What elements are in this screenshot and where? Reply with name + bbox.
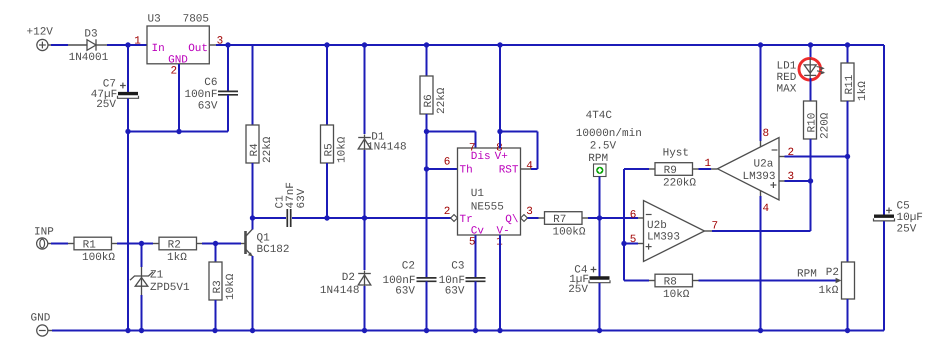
test point RPM	[576, 110, 642, 218]
resistor R6	[420, 45, 448, 169]
capacitor C5	[874, 45, 923, 331]
svg-text:4: 4	[763, 203, 770, 215]
svg-text:RST: RST	[499, 164, 519, 176]
svg-text:R6: R6	[423, 94, 435, 107]
svg-text:25V: 25V	[96, 99, 116, 111]
U2a pin 8	[763, 128, 770, 140]
resistor R7	[528, 212, 639, 239]
junction rail C6	[225, 42, 230, 47]
svg-text:1N4148: 1N4148	[367, 141, 407, 153]
svg-text:R11: R11	[844, 74, 856, 94]
U1 pin 6	[444, 157, 451, 169]
svg-text:LM393: LM393	[647, 232, 680, 244]
svg-text:1: 1	[134, 36, 141, 48]
junction V+/RST	[497, 129, 502, 134]
junction node INP/Z1	[139, 241, 144, 246]
junction subrail C7	[125, 129, 130, 134]
wire U2a pin4 to gnd	[760, 196, 762, 331]
svg-text:25V: 25V	[897, 224, 917, 236]
wire D3 to U3 In	[107, 44, 147, 46]
junction gnd R3	[212, 328, 217, 333]
svg-text:22kΩ: 22kΩ	[262, 136, 274, 163]
junction rail D1	[362, 42, 367, 47]
svg-text:220Ω: 220Ω	[819, 112, 831, 139]
svg-text:R3: R3	[212, 280, 224, 293]
U2a pin 4	[763, 203, 770, 215]
svg-text:63V: 63V	[198, 101, 218, 113]
junction rail R11	[845, 42, 850, 47]
junction rail LD1	[808, 42, 813, 47]
svg-text:4T4C: 4T4C	[586, 110, 613, 122]
svg-text:R8: R8	[664, 277, 677, 289]
svg-text:MAX: MAX	[777, 84, 797, 96]
junction minus ref	[845, 154, 850, 159]
svg-text:8: 8	[763, 128, 770, 140]
U1 pin 4	[526, 160, 533, 172]
svg-text:1N4001: 1N4001	[69, 52, 109, 64]
op-amp U2a LM393	[718, 138, 785, 201]
svg-text:6: 6	[630, 210, 637, 222]
svg-text:INP: INP	[34, 226, 54, 238]
svg-text:2: 2	[171, 66, 178, 78]
capacitor C2	[382, 169, 436, 331]
junction R6/Th	[424, 166, 429, 171]
svg-text:NE555: NE555	[471, 201, 504, 213]
capacitor C7	[91, 45, 139, 132]
U1 pin 5	[469, 236, 476, 248]
svg-text:1kΩ: 1kΩ	[167, 252, 187, 264]
svg-text:R5: R5	[323, 143, 335, 156]
svg-text:Tr: Tr	[460, 214, 473, 226]
U3 pin 2	[171, 66, 178, 78]
svg-text:4: 4	[526, 160, 533, 172]
diode D3	[68, 29, 109, 64]
svg-text:3: 3	[217, 36, 224, 48]
wire Cv pin down	[475, 235, 477, 248]
junction rail U2a pin8	[758, 42, 763, 47]
capacitor C6	[184, 45, 238, 132]
transistor Q1 BC182	[241, 218, 290, 331]
U1 pin 1	[496, 236, 503, 248]
junction rail R6	[424, 42, 429, 47]
wire gnd drop left	[127, 132, 129, 331]
svg-text:1kΩ: 1kΩ	[857, 81, 869, 101]
wire V+ pin up	[499, 45, 501, 148]
supply +12V	[27, 27, 54, 51]
svg-text:63V: 63V	[296, 188, 308, 208]
svg-text:Hyst: Hyst	[663, 147, 689, 159]
svg-text:10kΩ: 10kΩ	[663, 289, 690, 301]
capacitor C3	[439, 235, 486, 331]
svg-text:R7: R7	[553, 214, 566, 226]
U2b pin 5	[630, 234, 637, 246]
svg-text:+12V: +12V	[27, 27, 54, 39]
svg-text:Th: Th	[460, 164, 473, 176]
svg-text:2: 2	[444, 206, 451, 218]
wire U2a plus input	[785, 180, 811, 182]
svg-text:C3: C3	[451, 260, 464, 272]
svg-text:100kΩ: 100kΩ	[82, 252, 115, 264]
junction R4/C1/Q1	[250, 215, 255, 220]
junction gnd C7	[125, 328, 130, 333]
svg-text:C6: C6	[204, 77, 217, 89]
resistor R11	[841, 45, 869, 157]
resistor R3	[209, 244, 237, 331]
junction gnd Z1	[139, 328, 144, 333]
wire U2b out to U2a plus	[712, 181, 811, 231]
wire V- pin down	[499, 235, 501, 331]
svg-text:10000n/min: 10000n/min	[576, 128, 642, 140]
svg-text:Out: Out	[188, 43, 208, 55]
wire U2a pin8 to rail	[760, 45, 762, 141]
resistor R2	[142, 237, 242, 264]
diode D2	[320, 218, 371, 331]
wire hyst vertical	[624, 169, 649, 281]
svg-text:22kΩ: 22kΩ	[436, 87, 448, 114]
junction gnd 555 V-	[497, 328, 502, 333]
junction subrail U3 gnd	[176, 129, 181, 134]
wire trigger row	[327, 217, 451, 219]
svg-text:U2a: U2a	[754, 158, 774, 170]
svg-text:U1: U1	[471, 188, 485, 200]
svg-text:63V: 63V	[395, 286, 415, 298]
svg-text:GND: GND	[31, 313, 51, 325]
svg-text:BC182: BC182	[257, 244, 290, 256]
svg-text:U2b: U2b	[647, 220, 667, 232]
junction R7/TP/C4	[597, 215, 602, 220]
zener Z1 ZPD5V1	[130, 244, 190, 331]
junction R5 bottom	[324, 215, 329, 220]
svg-text:U3: U3	[148, 13, 161, 25]
svg-text:25V: 25V	[568, 284, 588, 296]
svg-text:P2: P2	[826, 267, 839, 279]
junction node R2/R3	[213, 241, 218, 246]
junction D1/trigger	[362, 215, 367, 220]
svg-text:100nF: 100nF	[184, 89, 217, 101]
svg-text:R10: R10	[806, 113, 818, 133]
svg-text:10µF: 10µF	[897, 212, 923, 224]
junction gnd C4	[597, 328, 602, 333]
junction plus/R10	[808, 178, 813, 183]
junction gnd C3	[473, 328, 478, 333]
junction gnd C2	[424, 328, 429, 333]
U2a pin 2	[788, 147, 795, 159]
svg-text:Q1: Q1	[257, 232, 271, 244]
wire RST loop	[500, 132, 538, 170]
resistor R9	[649, 147, 718, 189]
svg-text:2.5V: 2.5V	[590, 141, 617, 153]
svg-text:R2: R2	[168, 240, 181, 252]
resistor R4	[246, 45, 274, 218]
resistor R5	[321, 45, 349, 218]
U1 pin 2	[444, 206, 451, 218]
regulator U3 7805	[147, 13, 209, 66]
U1 pin 3	[526, 206, 533, 218]
svg-text:LM393: LM393	[743, 171, 776, 183]
resistor R10	[804, 101, 832, 181]
svg-text:1: 1	[705, 158, 712, 170]
svg-text:63V: 63V	[445, 286, 465, 298]
wire R11 to P2	[847, 157, 849, 263]
connector INP	[34, 226, 54, 249]
U1 pin 8	[496, 142, 503, 154]
U1 pin 7	[469, 142, 476, 154]
svg-text:10kΩ: 10kΩ	[336, 136, 348, 163]
junction gnd Q1 emitter	[250, 328, 255, 333]
diode D1	[358, 45, 406, 218]
svg-text:7805: 7805	[183, 13, 209, 25]
potentiometer P2	[797, 262, 855, 331]
U1 Q pin diamond	[521, 215, 528, 222]
junction gnd U2a pin4	[758, 328, 763, 333]
U2b pin 7	[712, 221, 719, 233]
junction +12V node	[125, 42, 130, 47]
wire Dis connect	[427, 132, 476, 149]
wire Th connect	[427, 168, 458, 170]
U2a pin 3	[788, 171, 795, 183]
U3 pin 1	[134, 36, 141, 48]
svg-text:3: 3	[526, 206, 533, 218]
svg-text:In: In	[152, 43, 165, 55]
wire +5V rail	[209, 44, 884, 46]
connector GND	[31, 313, 53, 337]
junction plus input	[621, 241, 626, 246]
resistor R8	[649, 274, 836, 301]
junction rail R5	[324, 42, 329, 47]
svg-text:100kΩ: 100kΩ	[553, 227, 586, 239]
U3 pin 3	[217, 36, 224, 48]
svg-text:1kΩ: 1kΩ	[819, 285, 839, 297]
op-amp U2b LM393	[638, 201, 712, 262]
wire U2a minus input	[785, 156, 848, 158]
wire plus input	[624, 243, 638, 245]
svg-text:ZPD5V1: ZPD5V1	[150, 282, 190, 294]
LED LD1	[777, 45, 826, 101]
svg-text:R4: R4	[249, 143, 261, 157]
svg-text:R1: R1	[83, 240, 97, 252]
svg-text:C2: C2	[402, 260, 415, 272]
timer U1 NE555	[458, 148, 521, 237]
svg-text:Z1: Z1	[150, 269, 164, 281]
svg-text:10kΩ: 10kΩ	[225, 273, 237, 300]
R9 pin 1	[705, 158, 712, 170]
wire gnd rail	[52, 330, 884, 332]
junction gnd P2	[845, 328, 850, 333]
junction rail 555 V+	[497, 42, 502, 47]
U2b pin 6	[630, 210, 637, 222]
svg-text:RPM: RPM	[588, 153, 608, 165]
U1 Tr pin diamond	[451, 215, 458, 222]
svg-text:6: 6	[444, 157, 451, 169]
svg-text:220kΩ: 220kΩ	[663, 178, 696, 190]
capacitor C4	[568, 218, 610, 331]
junction R6/Dis	[424, 129, 429, 134]
svg-text:Q\: Q\	[505, 214, 518, 226]
svg-text:D2: D2	[342, 272, 355, 284]
wire gnd subrail	[128, 131, 228, 133]
svg-text:R9: R9	[664, 165, 677, 177]
resistor R1	[51, 237, 142, 264]
svg-text:RPM: RPM	[797, 269, 817, 281]
junction gnd D2	[362, 328, 367, 333]
wire +12V to D3	[51, 44, 68, 46]
capacitor C1	[253, 182, 328, 227]
svg-text:D3: D3	[84, 29, 97, 41]
svg-text:RED: RED	[777, 72, 797, 84]
wire U3 GND pin down	[178, 64, 180, 132]
svg-text:7: 7	[469, 142, 476, 154]
svg-text:LD1: LD1	[777, 60, 797, 72]
svg-text:C5: C5	[897, 200, 910, 212]
svg-text:1N4148: 1N4148	[320, 285, 360, 297]
